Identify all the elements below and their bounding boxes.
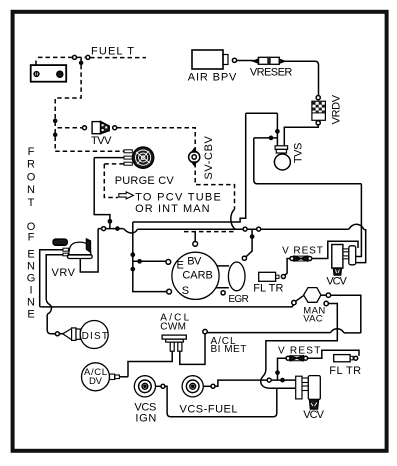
svg-text:FUEL T: FUEL T bbox=[91, 46, 134, 58]
svg-text:N: N bbox=[27, 260, 35, 272]
svg-text:DIST: DIST bbox=[82, 331, 108, 342]
svg-text:I: I bbox=[29, 284, 32, 296]
svg-text:VRV: VRV bbox=[52, 267, 76, 279]
svg-text:V REST: V REST bbox=[278, 346, 320, 357]
svg-text:VAC: VAC bbox=[303, 314, 323, 325]
svg-text:VCS-FUEL: VCS-FUEL bbox=[180, 404, 238, 416]
svg-text:PURGE CV: PURGE CV bbox=[115, 175, 175, 187]
svg-text:O: O bbox=[27, 171, 36, 183]
svg-text:T: T bbox=[28, 197, 35, 209]
svg-text:TVV: TVV bbox=[91, 135, 112, 147]
svg-text:TVS: TVS bbox=[292, 143, 304, 164]
svg-text:VCV: VCV bbox=[326, 276, 347, 288]
svg-text:CARB: CARB bbox=[182, 269, 212, 281]
svg-text:N: N bbox=[27, 184, 35, 196]
svg-text:CWM: CWM bbox=[160, 322, 186, 333]
svg-text:V REST: V REST bbox=[282, 245, 323, 256]
svg-text:G: G bbox=[27, 272, 36, 284]
svg-text:VCV: VCV bbox=[303, 409, 324, 421]
svg-text:BI MET: BI MET bbox=[211, 344, 247, 355]
svg-text:FL TR: FL TR bbox=[253, 283, 283, 295]
svg-text:OR INT MAN: OR INT MAN bbox=[135, 203, 210, 215]
svg-text:VRDV: VRDV bbox=[331, 94, 343, 124]
svg-text:BV: BV bbox=[187, 255, 202, 267]
svg-text:E: E bbox=[27, 308, 34, 320]
svg-text:DV: DV bbox=[89, 376, 103, 387]
svg-text:IGN: IGN bbox=[135, 413, 156, 425]
svg-text:E: E bbox=[27, 248, 34, 260]
svg-text:EGR: EGR bbox=[228, 294, 248, 305]
svg-text:AIR BPV: AIR BPV bbox=[188, 72, 237, 84]
svg-text:VRESER: VRESER bbox=[250, 66, 292, 78]
svg-text:F: F bbox=[28, 146, 35, 158]
svg-text:N: N bbox=[27, 296, 35, 308]
svg-text:VCS: VCS bbox=[134, 402, 156, 414]
svg-text:F: F bbox=[28, 231, 35, 243]
svg-text:S: S bbox=[182, 285, 189, 297]
svg-text:R: R bbox=[27, 159, 35, 171]
svg-text:FL TR: FL TR bbox=[329, 365, 361, 377]
svg-text:SV-CBV: SV-CBV bbox=[203, 135, 215, 179]
svg-text:TO PCV TUBE: TO PCV TUBE bbox=[135, 192, 221, 204]
